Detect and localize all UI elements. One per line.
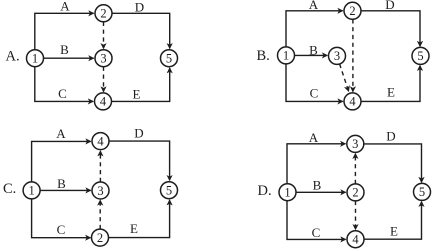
svg-text:A: A — [309, 0, 319, 12]
svg-text:C: C — [57, 222, 66, 237]
quadrant B: wire B (1 to 3) — [295, 54, 328, 56]
quadrant B: wire A (1 to 2) — [286, 11, 343, 47]
svg-text:C: C — [58, 86, 67, 101]
svg-text:2: 2 — [97, 231, 103, 245]
quadrant A: dummy arrow 3 to 4 (dashed) — [103, 67, 105, 92]
quadrant D: wire A (1 to 3) — [287, 144, 345, 184]
quadrant B: node 3 — [329, 47, 346, 64]
quadrant A: wire D (2 to 5) — [112, 13, 170, 48]
svg-text:4: 4 — [97, 134, 104, 148]
svg-text:C.: C. — [3, 181, 16, 197]
quadrant D: node 4 — [347, 231, 364, 248]
quadrant B: dummy arrow 3 to 4 (dashed, diagonal) — [340, 64, 349, 91]
quadrant A: node 4 — [95, 93, 112, 110]
svg-text:4: 4 — [349, 95, 356, 109]
svg-text:C: C — [312, 225, 321, 240]
svg-text:5: 5 — [166, 52, 172, 66]
quadrant A: wire B (1 to 3) — [44, 57, 94, 59]
quadrant A: node 2 — [95, 5, 112, 22]
quadrant B: node 5 — [412, 47, 429, 64]
svg-text:E: E — [130, 221, 138, 236]
quadrant B: wire D (2 to 5) — [361, 11, 420, 46]
quadrant C: wire C (1 to 2) — [32, 199, 91, 238]
quadrant B: dummy arrow 2 to 4 (dashed) — [352, 19, 354, 91]
svg-text:3: 3 — [100, 52, 106, 66]
svg-text:1: 1 — [32, 52, 38, 66]
svg-text:B: B — [313, 178, 322, 193]
svg-text:1: 1 — [284, 186, 290, 200]
quadrant D: node 1 — [279, 184, 296, 201]
quadrant C: node 3 — [92, 182, 109, 199]
svg-text:A: A — [309, 130, 319, 145]
svg-text:1: 1 — [28, 184, 34, 198]
quadrant C: node 2 — [92, 229, 109, 246]
quadrant A: dummy arrow 2 to 3 (dashed) — [103, 22, 105, 49]
svg-text:B: B — [60, 42, 69, 57]
quadrant A: node 3 — [95, 50, 112, 67]
svg-text:4: 4 — [100, 95, 107, 109]
quadrant C: wire D (4 to 5) — [109, 141, 170, 180]
svg-text:2: 2 — [352, 186, 358, 200]
quadrant C: wire E (2 to 5) — [109, 200, 170, 238]
svg-text:B: B — [309, 42, 318, 57]
svg-text:A.: A. — [6, 49, 20, 65]
quadrant A: node 5 — [161, 50, 178, 67]
quadrant B: wire C (1 to 4) — [286, 64, 343, 102]
quadrant D: node 3 — [347, 135, 364, 152]
svg-text:A: A — [60, 0, 70, 14]
quadrant C: dummy arrow 3 to 4 (dashed) — [99, 151, 101, 182]
svg-text:5: 5 — [419, 185, 425, 199]
svg-text:5: 5 — [417, 49, 423, 63]
quadrant C: wire A (1 to 4) — [32, 141, 91, 182]
quadrant C: wire B (1 to 3) — [40, 189, 91, 191]
svg-text:D: D — [135, 0, 144, 15]
svg-text:2: 2 — [100, 7, 106, 21]
quadrant D: node 5 — [414, 183, 431, 200]
svg-text:4: 4 — [352, 233, 359, 247]
quadrant D: dummy arrow 2 to 3 (dashed) — [354, 154, 356, 184]
quadrant C: dummy arrow 2 to 3 (dashed) — [99, 200, 101, 229]
svg-text:C: C — [310, 85, 319, 100]
quadrant B: wire E (4 to 5) — [361, 66, 420, 102]
quadrant D: wire E (4 to 5) — [364, 202, 422, 240]
svg-text:D: D — [386, 128, 395, 143]
svg-text:5: 5 — [166, 184, 172, 198]
quadrant A: wire A (1 to 2) — [35, 13, 94, 50]
quadrant A: wire C (1 to 4) — [35, 67, 93, 102]
quadrant C: node 4 — [92, 133, 109, 150]
svg-text:E: E — [390, 224, 398, 239]
svg-text:2: 2 — [349, 4, 355, 18]
svg-text:D: D — [385, 0, 394, 12]
svg-text:B.: B. — [257, 48, 270, 64]
quadrant C: node 1 — [23, 182, 40, 199]
quadrant B: node 4 — [344, 93, 361, 110]
svg-text:3: 3 — [334, 49, 340, 63]
quadrant C: node 5 — [161, 182, 178, 199]
svg-text:A: A — [56, 126, 66, 141]
svg-text:3: 3 — [97, 184, 103, 198]
svg-text:1: 1 — [283, 49, 289, 63]
quadrant D: wire B (1 to 2) — [296, 191, 346, 193]
quadrant B: node 1 — [278, 47, 295, 64]
quadrant A: node 1 — [27, 50, 44, 67]
quadrant D: wire D (3 to 5) — [364, 144, 422, 182]
quadrant A: wire E (4 to 5) — [112, 68, 170, 101]
quadrant D: node 2 — [347, 184, 364, 201]
svg-text:D: D — [134, 125, 143, 140]
quadrant D: wire C (1 to 4) — [287, 201, 346, 240]
svg-text:3: 3 — [352, 137, 358, 151]
svg-text:E: E — [133, 87, 141, 102]
svg-text:B: B — [57, 176, 66, 191]
svg-text:E: E — [387, 85, 395, 100]
svg-text:D.: D. — [258, 183, 272, 199]
quadrant B: node 2 — [344, 2, 361, 19]
quadrant D: dummy arrow 2 to 4 (dashed) — [355, 201, 357, 230]
